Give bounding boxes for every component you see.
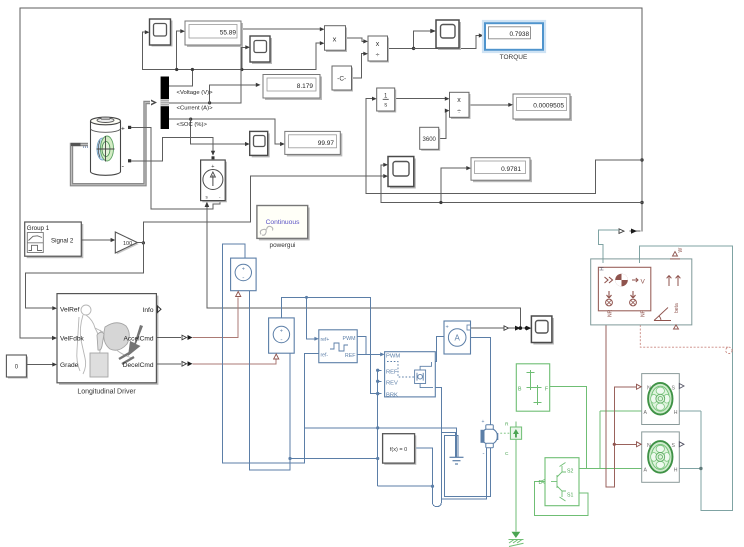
wire NF dashed (640, 325, 732, 354)
wire common rail y427.9 (305, 427, 457, 429)
wire riser to scope1 (142, 32, 146, 69)
tire N input arrow (637, 384, 642, 389)
node junction x192.4 y69.5 (191, 68, 194, 71)
tire block rear (637, 374, 685, 425)
svg-text:BRK: BRK (386, 392, 398, 398)
svg-text:TORQUE: TORQUE (500, 54, 528, 61)
port W glyph (670, 252, 680, 259)
scope Scope2 (250, 36, 272, 64)
wire current branch to display8179 (210, 85, 257, 103)
tire N input arrow (637, 442, 642, 447)
wire ground stem (456, 428, 458, 457)
node junction x190.7 y119.1 (189, 118, 192, 121)
SECTION: green drivetrain (500, 364, 641, 547)
svg-text:beta: beta (674, 303, 680, 313)
wire ref minus down (305, 354, 319, 428)
vehicle body block inner (598, 267, 651, 317)
wire riser to product in2 (316, 43, 321, 69)
svg-text:f(x) = 0: f(x) = 0 (390, 447, 407, 453)
node junction CVS2 minus tee (288, 457, 291, 460)
svg-text:VelRef: VelRef (60, 307, 80, 314)
SECTION: top signal wires (20, 8, 644, 340)
integrator 1/s (377, 88, 397, 113)
wire signal builder to gain (81, 239, 112, 241)
wire constant3600 to divide2 (439, 111, 447, 139)
node junction hop (431, 485, 434, 488)
wire DecelCmd out (156, 363, 181, 365)
wire speed to scope5 in1 (381, 165, 384, 203)
wire battery minus to source top (131, 137, 213, 160)
wire speed branch to integrator loop (366, 160, 642, 193)
divide block Divide2 (450, 92, 471, 119)
wire axle rail to tire2 A (579, 468, 642, 470)
scope Scope5 two inputs (388, 157, 416, 189)
svg-text:+: + (211, 164, 214, 170)
svg-text:+: + (482, 419, 485, 425)
svg-text:DecelCmd: DecelCmd (123, 362, 154, 369)
beta slope icon (654, 308, 671, 321)
wire SOC branch to scope3 (191, 119, 247, 144)
svg-text:100: 100 (123, 241, 132, 247)
svg-text:A: A (455, 334, 461, 343)
wire speed line y202.5 (381, 202, 642, 204)
wire ground rail hop (378, 486, 442, 506)
display Display 99.97 (285, 131, 343, 156)
svg-text:+: + (121, 126, 125, 133)
wire SOC to display99 riser (170, 119, 282, 144)
wire red decel to CVS2 (193, 360, 277, 364)
node junction solver tee (376, 457, 379, 460)
svg-text:55.89: 55.89 (220, 30, 237, 37)
svg-text:0.9781: 0.9781 (501, 166, 521, 173)
SECTION: blue power circuit (223, 244, 498, 507)
incline arrows (667, 276, 681, 287)
wire solver output (414, 448, 432, 486)
SECTION: left blocks (6, 206, 309, 396)
bus input double arrow (151, 100, 157, 106)
svg-text:Continuous: Continuous (266, 219, 300, 226)
svg-text:0.7938: 0.7938 (509, 31, 529, 38)
node junction x176.7 y69.5 (175, 68, 178, 71)
svg-text:Grade: Grade (60, 362, 79, 369)
powergui block (257, 206, 310, 241)
wire NR to tire normals (606, 325, 636, 487)
wire riser to display55 (177, 31, 182, 69)
constant -C- (332, 66, 353, 92)
wire battery plus to source (131, 127, 220, 209)
svg-text:H: H (674, 410, 678, 416)
wire current sense long line y308.2 (207, 205, 520, 328)
wire constant 0 to Grade (26, 364, 53, 366)
svg-text:x: x (457, 97, 461, 104)
svg-text:V: V (641, 279, 646, 286)
svg-text:C: C (505, 451, 509, 457)
battery block (83, 117, 131, 175)
body icon chevrons (605, 277, 613, 283)
wire gearbox F to axle rail (550, 387, 587, 469)
node junction x413.6 y48.4 (412, 47, 415, 50)
constant 3600 (420, 127, 441, 151)
wire scope5 in2 from gain reference (143, 176, 384, 243)
SECTION: vehicle body (591, 230, 733, 510)
PWM reference generator block (319, 330, 357, 363)
svg-text:s: s (384, 103, 387, 109)
wire speed source arrow into x642 (630, 230, 640, 232)
wire divide1 out (387, 31, 431, 48)
svg-text:Longitudinal Driver: Longitudinal Driver (77, 389, 136, 396)
svg-text:NF: NF (641, 310, 647, 317)
svg-text:+: + (280, 329, 283, 335)
svg-text:<Current (A)>: <Current (A)> (177, 106, 214, 112)
svg-text:0.0009505: 0.0009505 (533, 103, 564, 110)
svg-text:-C-: -C- (337, 76, 346, 83)
svg-text:S: S (672, 385, 676, 391)
gear lever (97, 332, 104, 350)
svg-text:÷: ÷ (457, 109, 461, 116)
controlled current source (201, 160, 227, 202)
svg-text:Info: Info (143, 307, 154, 314)
wire riser from voltage port (170, 70, 193, 87)
gearbox block (516, 364, 549, 411)
svg-text:R: R (505, 422, 509, 428)
display Display 0.9781 (471, 158, 532, 183)
node junction x440.9 y202.5 (439, 201, 442, 204)
svg-text:99.97: 99.97 (318, 140, 335, 147)
svg-text:W: W (678, 248, 684, 253)
svg-text:A: A (644, 410, 648, 416)
svg-text:VelFdbk: VelFdbk (60, 336, 85, 343)
svg-text:powergui: powergui (270, 242, 296, 249)
tire S output arrow (679, 442, 684, 447)
info out chevron (158, 306, 162, 313)
svg-text:8.179: 8.179 (297, 83, 314, 90)
longitudinal driver block (57, 294, 161, 385)
wire divide2 out to display (469, 104, 510, 106)
tire block front (637, 432, 685, 482)
svg-text:REV: REV (386, 381, 398, 387)
wire riser to display09781 (441, 168, 468, 202)
product block X (325, 26, 348, 52)
svg-text:S2: S2 (567, 469, 573, 475)
tire S output arrow (679, 384, 684, 389)
wire CVS1 plus rail (223, 244, 305, 463)
wire hbridge REV stub (378, 380, 382, 382)
svg-text:S1: S1 (567, 493, 573, 499)
svg-text:-: - (280, 337, 282, 344)
mechanical rotational reference ground (509, 532, 524, 547)
beta port triangle (674, 325, 679, 329)
svg-text:3600: 3600 (423, 137, 437, 143)
svg-text:Group 1: Group 1 (27, 225, 50, 232)
svg-text:-: - (242, 275, 244, 282)
wire gain to VelRef (26, 243, 144, 309)
wire sensor C to mech reference (515, 439, 517, 531)
svg-text:+: + (242, 267, 245, 273)
wire red accel to CVS1 (193, 298, 239, 338)
signal builder block Group 1 / Signal 2 (25, 222, 84, 258)
body icon V arrow (632, 278, 638, 282)
wire CVS2 plus to hbridge brk column (282, 297, 382, 393)
svg-text:-: - (483, 451, 485, 457)
DC motor block (481, 419, 498, 457)
SECTION: top blocks (71, 19, 572, 345)
wire speed feedback loop top (20, 8, 642, 338)
scope Scope3 (250, 131, 270, 157)
wire hbridge input riser (377, 370, 379, 486)
svg-text:REF: REF (345, 353, 356, 359)
wire ground hook2 (441, 433, 455, 457)
SECTION: tires (637, 374, 685, 483)
svg-text:+: + (446, 325, 449, 331)
wire speed sensor to feedback (598, 230, 619, 263)
ground electrical (450, 457, 464, 464)
divide block Divide1 (368, 36, 389, 63)
node junction rail riser (376, 426, 379, 429)
scope Scope4 (436, 20, 461, 50)
svg-text:ref-: ref- (321, 353, 329, 359)
vehicle subsystem outer box (591, 259, 692, 325)
bus selector output stubs (169, 85, 175, 87)
wire vehicle V to wheel hubs (639, 246, 732, 511)
wire AccelCmd out (156, 337, 181, 339)
wire into scope6 (509, 327, 528, 329)
gain block 100 (115, 232, 139, 255)
display TORQUE 0.7938 selected (483, 21, 545, 61)
bus thick wire battery m to bus selector (72, 103, 151, 185)
display Display 55.89 (185, 21, 243, 47)
wire CVS1 minus loop (250, 291, 291, 471)
wire VelFdbk arrowhead (52, 336, 57, 340)
wire PWM gen to hbridge PWM (357, 337, 381, 355)
svg-text:<Voltage (V)>: <Voltage (V)> (177, 90, 214, 96)
wire hbridge minus to ground column (435, 388, 486, 500)
svg-text:A: A (644, 468, 648, 474)
node junction hub rail (699, 467, 702, 470)
svg-text:F: F (545, 387, 548, 393)
svg-text:AccelCmd: AccelCmd (123, 336, 153, 343)
svg-text:Signal 2: Signal 2 (51, 238, 74, 245)
wire motor shaft dashed link (500, 432, 510, 434)
svg-text:H: H (674, 468, 678, 474)
svg-text:H: H (598, 267, 604, 271)
svg-text:PWM: PWM (386, 354, 400, 360)
wire motor minus to ground (445, 435, 491, 496)
wire riser to tire1 A (599, 411, 601, 469)
scope Scope1 (150, 19, 173, 47)
svg-text:x: x (333, 35, 337, 44)
wire ref plus riser (307, 297, 316, 338)
wire riser to scope2 (242, 47, 247, 69)
wire speed to integrator (366, 99, 373, 194)
node junction NF branch (613, 443, 616, 446)
svg-text:B: B (518, 387, 522, 393)
svg-text:x: x (376, 41, 380, 48)
wire hbridge REF stub (378, 369, 382, 371)
pedal box (90, 353, 108, 377)
node junction x209.6 y102.9 (208, 101, 211, 104)
solver configuration fx block (383, 434, 417, 465)
wire ammeter i out (471, 327, 504, 329)
wire solver feed line (290, 458, 378, 460)
controlled voltage source CVS2 (269, 318, 295, 359)
controlled voltage source CVS1 (231, 258, 257, 296)
svg-text:S: S (672, 443, 676, 449)
wire product out to divide1 (345, 38, 364, 41)
dark arrow (128, 325, 143, 356)
node port dots REF REV BRK (376, 369, 379, 372)
steering panel blob (104, 323, 130, 350)
display Display 0.0009505 (513, 94, 572, 121)
svg-text:NR: NR (608, 309, 614, 317)
bus selector (151, 77, 213, 130)
svg-text:<SOC (%)>: <SOC (%)> (177, 122, 208, 128)
battery logo (97, 138, 108, 160)
node junction x642 y202.5 (640, 201, 643, 204)
wire constant -C- to divide1 (351, 54, 364, 78)
wire differential loop (535, 481, 588, 515)
wire hbridge plus to ammeter (435, 337, 444, 362)
label D port small triangle (541, 479, 545, 483)
tire force arrows (606, 291, 637, 306)
wire integrator out to divide2 (395, 98, 446, 100)
node junction x642 y160 (640, 158, 643, 161)
wire current to display8179 (170, 29, 321, 103)
H-bridge block (385, 352, 436, 399)
svg-text:PWM: PWM (343, 336, 356, 342)
svg-text:ref+: ref+ (321, 337, 330, 343)
rotational sensor block (505, 422, 522, 458)
wire ammeter to motor plus (471, 338, 491, 425)
svg-text:REF: REF (386, 370, 398, 376)
display Display 8.179 (263, 75, 322, 101)
scope Scope6 (531, 316, 554, 345)
constant 0 (6, 355, 28, 379)
port open arrow (504, 326, 509, 330)
wire voltage trunk y69.5 (142, 69, 316, 71)
wire divide1 to torque display (414, 36, 480, 49)
ammeter current sensor (444, 321, 471, 354)
body icon sphere (615, 274, 628, 287)
svg-text:÷: ÷ (376, 52, 380, 59)
differential block (539, 458, 580, 506)
node junction x241.8 y69.5 (240, 68, 243, 71)
driver icon (77, 305, 132, 374)
